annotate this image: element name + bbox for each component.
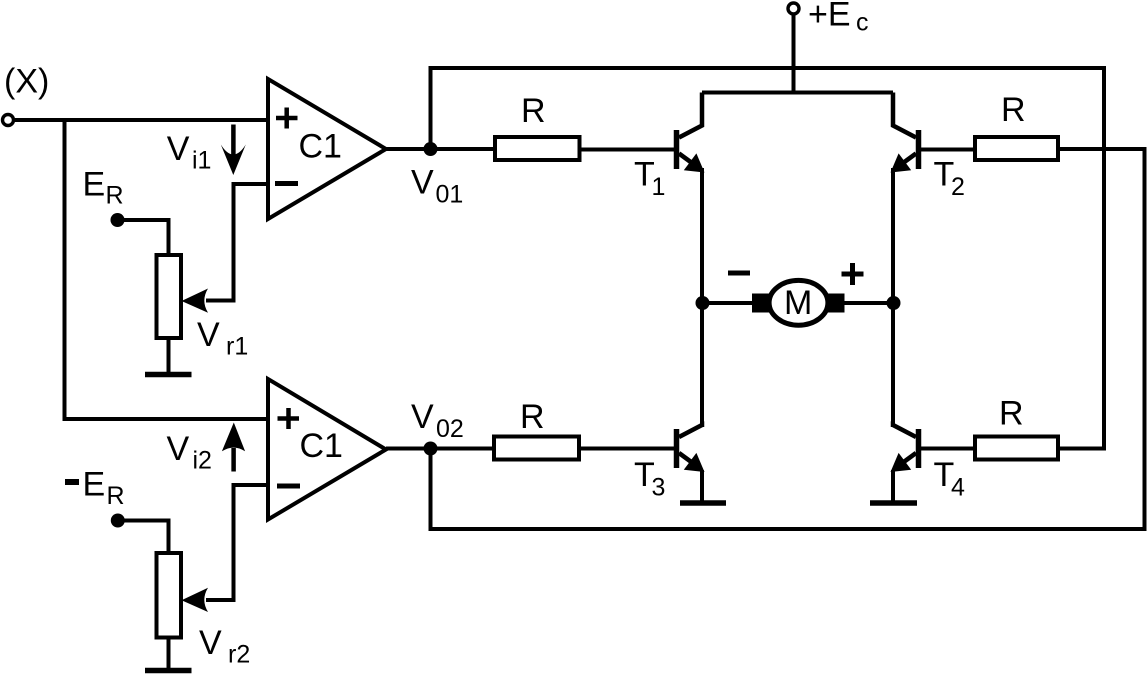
label T4 — [934, 456, 966, 502]
svg-text:(X): (X) — [4, 63, 49, 101]
label T2 — [934, 156, 965, 202]
wire C1 output — [386, 147, 495, 151]
svg-text:2: 2 — [951, 173, 965, 201]
label Vr2 — [199, 624, 250, 669]
wire -ER to potentiometer — [118, 521, 169, 555]
svg-text:3: 3 — [652, 474, 666, 502]
wire R right to far-right feedback down to bottom rail — [431, 149, 1145, 529]
terminal ER — [111, 213, 125, 227]
svg-text:c: c — [856, 9, 869, 37]
motor terminal right — [826, 294, 845, 313]
svg-text:C1: C1 — [300, 427, 343, 465]
label +Ec — [808, 0, 869, 37]
svg-text:E: E — [83, 166, 106, 204]
transistor T3 — [677, 425, 705, 472]
wire R to T1 base — [580, 148, 675, 152]
label ER — [83, 166, 124, 210]
label -ER — [65, 466, 125, 511]
node motor left — [696, 296, 710, 310]
wire motor left — [703, 301, 754, 305]
wire T4 base to R — [919, 447, 976, 451]
terminal -ER — [111, 514, 125, 528]
ground pot2 — [145, 638, 192, 671]
svg-text:R: R — [521, 92, 546, 130]
left bridge rail — [700, 168, 704, 427]
svg-text:R: R — [999, 395, 1024, 433]
svg-text:V: V — [167, 430, 190, 468]
label Vi1 — [167, 130, 212, 175]
wire motor right — [843, 301, 894, 305]
svg-text:R: R — [520, 398, 545, 436]
svg-text:V: V — [197, 316, 220, 354]
resistor R (bottom-left) — [494, 437, 579, 460]
wire ER to potentiometer — [118, 220, 169, 256]
supply terminal +Ec — [788, 3, 799, 93]
label V01 — [411, 164, 463, 209]
op-amp C1 (bottom) — [268, 379, 386, 520]
svg-text:V: V — [411, 398, 434, 436]
svg-text:r2: r2 — [228, 641, 250, 669]
resistor R (top-left) — [495, 137, 580, 160]
bridge top rail — [702, 91, 893, 95]
motor polarity minus — [728, 271, 750, 276]
wire input to C1 plus input — [14, 118, 269, 122]
svg-text:R: R — [106, 182, 124, 210]
transistor T4 — [891, 425, 919, 472]
label T3 — [634, 456, 665, 502]
right bridge rail — [891, 168, 895, 427]
svg-text:1: 1 — [652, 173, 666, 201]
wire C1b minus input to wiper — [182, 485, 269, 612]
motor terminal left — [752, 294, 771, 313]
input terminal (X) — [3, 115, 14, 126]
wire branch down to C2 plus input — [65, 120, 269, 419]
svg-text:i1: i1 — [192, 147, 211, 175]
svg-text:+E: +E — [808, 0, 851, 34]
node V02 — [424, 442, 438, 456]
motor polarity plus — [842, 263, 864, 285]
wire T2 base to R — [919, 148, 976, 152]
node V01 — [424, 142, 438, 156]
svg-text:C1: C1 — [299, 128, 342, 166]
svg-text:V: V — [167, 130, 190, 168]
label Vi2 — [167, 430, 212, 475]
svg-text:r1: r1 — [226, 333, 248, 361]
svg-text:V: V — [199, 624, 222, 662]
ground T3 — [680, 470, 726, 503]
label V02 — [411, 398, 464, 443]
svg-text:R: R — [1001, 91, 1026, 129]
svg-text:i2: i2 — [193, 447, 212, 475]
arrow Vi2 — [222, 423, 245, 472]
svg-text:M: M — [784, 284, 812, 322]
transistor T2 — [891, 93, 919, 173]
potentiometer Vr1 — [157, 255, 182, 338]
op-amp C1 (top) — [268, 79, 386, 219]
wire V01 feedback up and across to T4 branch — [431, 68, 1105, 449]
resistor R (bottom-right) — [975, 437, 1058, 460]
svg-text:4: 4 — [951, 474, 965, 502]
motor M — [769, 280, 828, 325]
ground pot1 — [145, 338, 192, 375]
label T1 — [634, 156, 665, 202]
svg-text:R: R — [107, 482, 125, 510]
svg-text:V: V — [411, 164, 434, 202]
node motor right — [887, 296, 901, 310]
wire C1 minus input to wiper — [182, 184, 269, 313]
wire C1b output — [386, 447, 494, 451]
svg-text:02: 02 — [436, 415, 464, 443]
label Vr1 — [197, 316, 248, 361]
svg-text:E: E — [83, 466, 106, 504]
potentiometer Vr2 — [157, 553, 182, 638]
svg-text:01: 01 — [436, 181, 464, 209]
wire R to T3 base — [579, 447, 674, 451]
resistor R (top-right) — [975, 137, 1058, 160]
arrow Vi1 — [221, 125, 246, 176]
ground T4 — [870, 470, 917, 503]
transistor T1 — [677, 93, 705, 173]
